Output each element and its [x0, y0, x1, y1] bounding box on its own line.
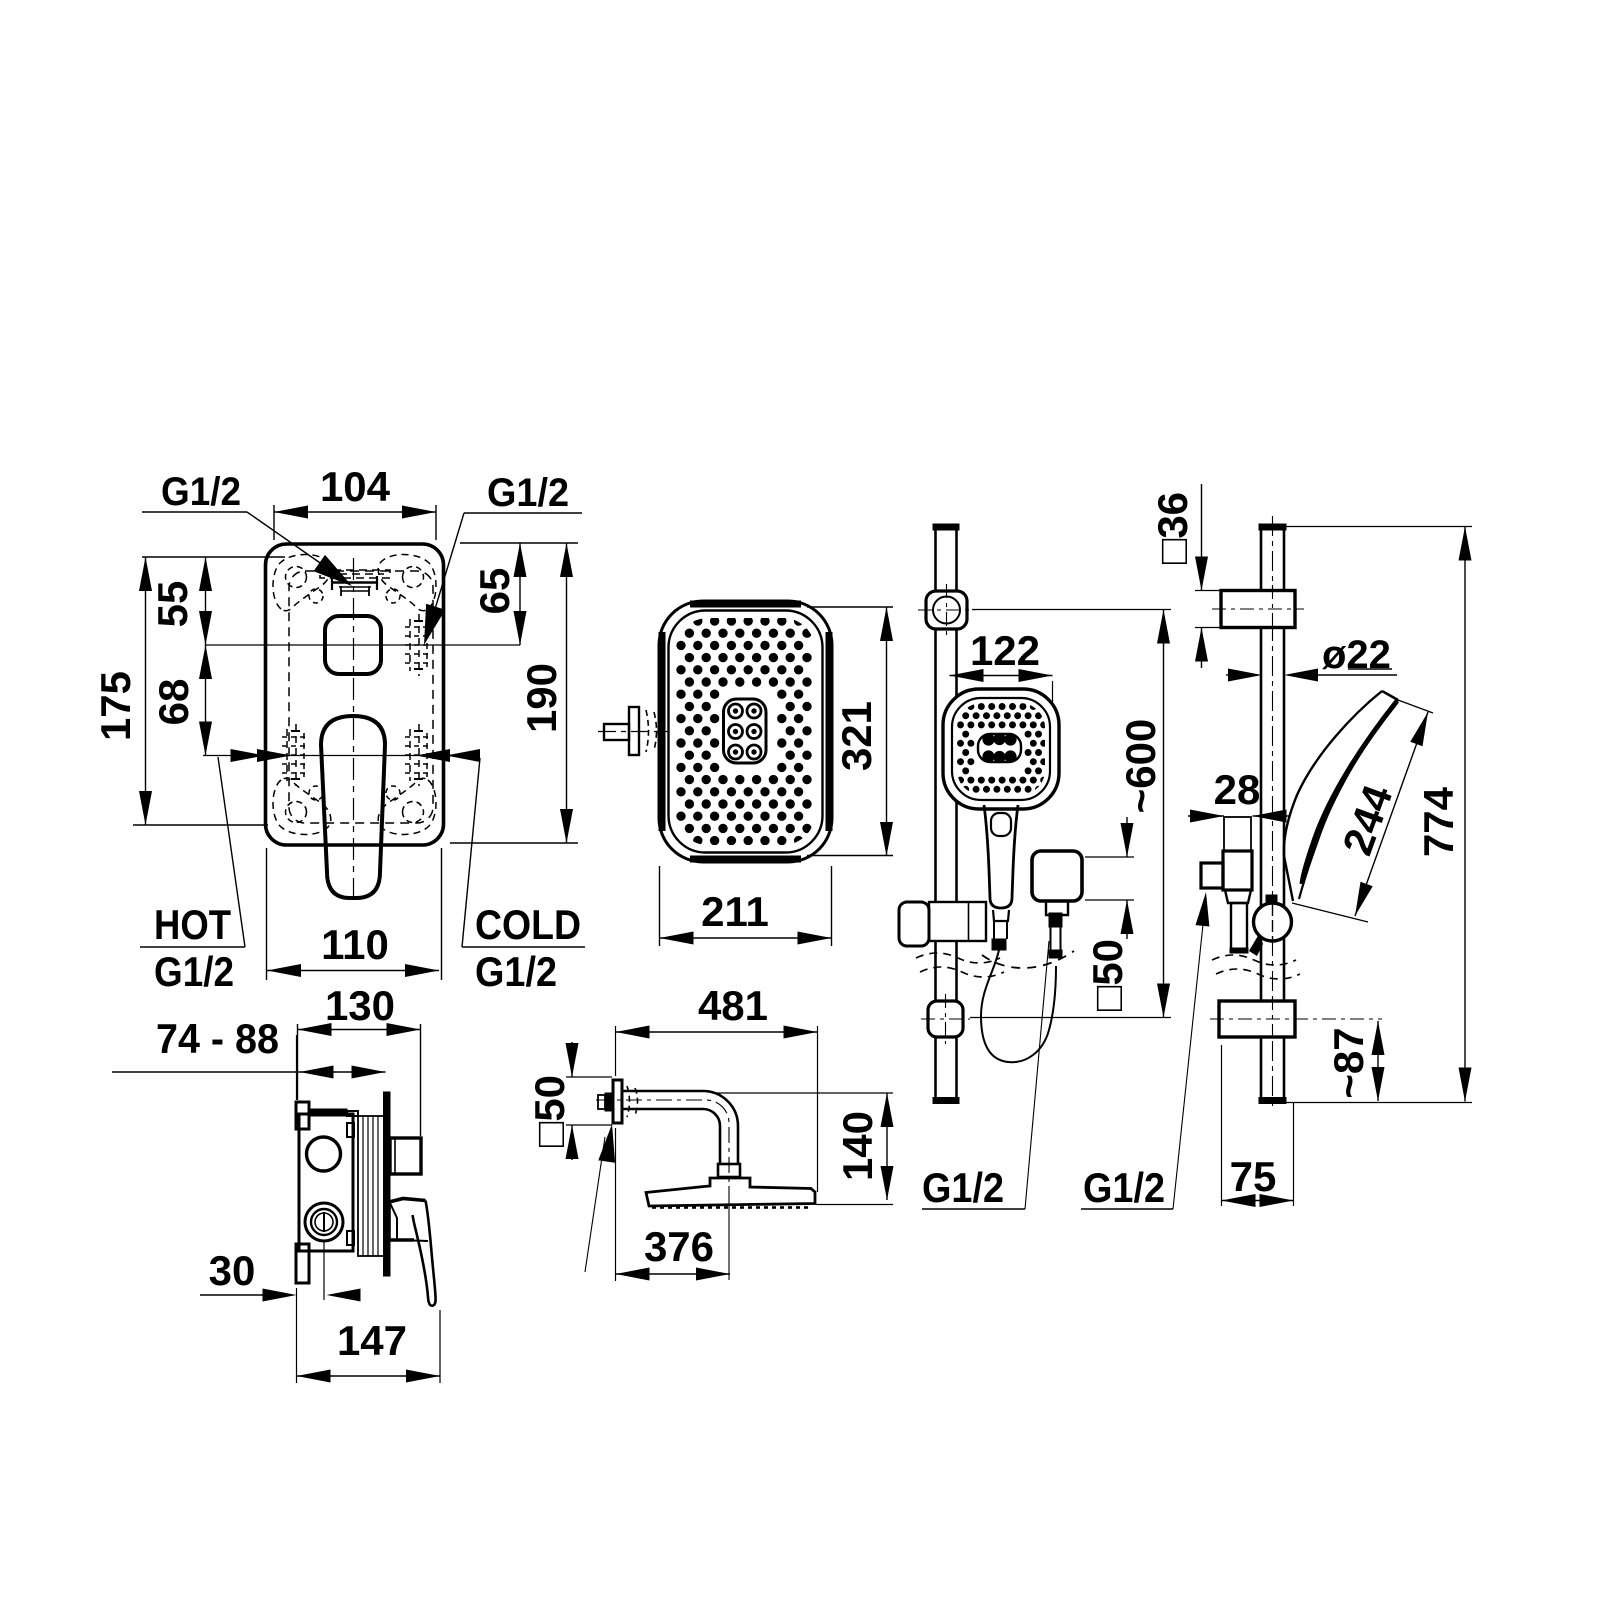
- hand shower front: handle: [984, 805, 1018, 908]
- mixer side view: diverter knob: [390, 1138, 421, 1174]
- overhead shower front: center jet plate: [724, 699, 767, 763]
- rail break marks: [916, 953, 1000, 963]
- cold inlet valve symbol (upper right): [405, 614, 432, 676]
- svg-text:G1/2: G1/2: [1083, 1164, 1165, 1211]
- mixer side view: lower port circles: [305, 1203, 343, 1241]
- svg-text:G1/2: G1/2: [475, 948, 557, 995]
- shower hose: [981, 950, 1056, 1062]
- svg-text:~87: ~87: [1325, 1027, 1372, 1098]
- svg-text:110: 110: [321, 921, 389, 968]
- hand shower front: center plate: [978, 734, 1021, 762]
- mixer side view: wall flange bottom: [296, 1244, 309, 1283]
- svg-text:104: 104: [320, 463, 391, 510]
- rail side: pivot ball: [1266, 895, 1277, 904]
- plate corner escutcheon mark bottom-right: [378, 778, 436, 834]
- rain head side profile: [646, 1178, 815, 1206]
- svg-text:30: 30: [209, 1247, 256, 1294]
- svg-text:175: 175: [92, 671, 139, 741]
- hot valve symbol (lower left): [282, 724, 309, 786]
- plate vertical centerline: [353, 558, 355, 905]
- mixer front view: inner dashed contour: [289, 571, 433, 823]
- plate corner escutcheon mark top-left: [273, 554, 331, 610]
- arm wall stub: [598, 1095, 605, 1109]
- svg-text:74 - 88: 74 - 88: [156, 1015, 279, 1062]
- svg-text:774: 774: [1415, 786, 1462, 857]
- svg-text:140: 140: [834, 1111, 881, 1181]
- plate corner escutcheon mark bottom-left: [273, 778, 331, 834]
- upper valve axis centerline: [206, 644, 520, 646]
- rail side: break marks: [1212, 955, 1296, 965]
- plate width arrows at valve axis: [231, 749, 265, 762]
- svg-text:G1/2: G1/2: [922, 1164, 1004, 1211]
- shower arm pipe: [622, 1091, 738, 1164]
- svg-text:321: 321: [833, 701, 880, 771]
- lower valve axis centerline: [203, 755, 478, 757]
- mixer lever handle (front): [321, 716, 385, 898]
- hose wedge at ball: [1249, 934, 1263, 956]
- svg-text:G1/2: G1/2: [487, 471, 569, 515]
- svg-text:COLD: COLD: [475, 901, 581, 948]
- svg-text:G1/2: G1/2: [161, 470, 241, 514]
- outlet nut: [1046, 901, 1068, 915]
- svg-text:ø22: ø22: [1322, 633, 1391, 677]
- svg-text:65: 65: [471, 568, 518, 615]
- svg-text:G1/2: G1/2: [154, 948, 234, 995]
- hand shower wand (side): [1284, 691, 1382, 901]
- rail top slider bracket: [926, 591, 967, 629]
- svg-text:28: 28: [1214, 766, 1261, 813]
- mixer side view: wall flange top: [296, 1102, 309, 1129]
- mixer side view: body box: [299, 1114, 353, 1251]
- overhead shower front: outer shell: [659, 601, 832, 862]
- rail bar (side view): [1260, 527, 1263, 1100]
- overhead shower front: face ring: [669, 611, 823, 853]
- overhead shower front: wall connector: [604, 724, 629, 740]
- svg-text:HOT: HOT: [154, 901, 231, 948]
- mixer side view: cartridge hatch: [358, 1116, 384, 1256]
- svg-text:147: 147: [337, 1317, 407, 1364]
- svg-text:□50: □50: [1084, 939, 1131, 1011]
- mixer side view: lever handle: [389, 1199, 426, 1241]
- svg-text:376: 376: [644, 1223, 714, 1270]
- plate corner escutcheon mark top-right: [378, 554, 436, 610]
- svg-text:□36: □36: [1149, 492, 1196, 564]
- rail bottom slider bracket: [928, 1001, 963, 1037]
- arm flange leader arrow: [585, 1137, 605, 1272]
- svg-text:122: 122: [970, 627, 1040, 674]
- upper valve opening (rounded square): [325, 616, 381, 674]
- mixer side view: top bar: [309, 1109, 347, 1116]
- diverter knob top-center: [320, 570, 390, 596]
- svg-text:190: 190: [518, 663, 565, 733]
- svg-text:68: 68: [150, 679, 197, 726]
- rail side: holder assembly: [1224, 817, 1251, 851]
- hand shower hose fitting: [993, 910, 1009, 921]
- rail side: bottom bracket: [1219, 1001, 1295, 1037]
- svg-text:130: 130: [325, 982, 395, 1029]
- svg-text:~600: ~600: [1117, 719, 1164, 814]
- arm nut: [718, 1164, 740, 1177]
- mixer side view: upper port circle: [307, 1137, 341, 1171]
- rail side: top bracket: [1221, 591, 1295, 628]
- cold valve symbol (lower right): [405, 724, 432, 786]
- svg-text:□50: □50: [526, 1075, 573, 1147]
- mixer front view: plate outline: [266, 544, 444, 845]
- rail bar (front view): [934, 527, 937, 1100]
- rain head nozzles: [652, 1206, 808, 1209]
- mixer side view: escutcheon plate bar: [384, 1092, 391, 1276]
- svg-text:55: 55: [149, 581, 196, 628]
- svg-text:481: 481: [698, 982, 768, 1029]
- arm flange plate: [613, 1080, 622, 1123]
- hidden hose dashed arc: [982, 951, 1074, 968]
- hand shower front: head: [943, 689, 1059, 809]
- svg-text:75: 75: [1230, 1153, 1277, 1200]
- svg-text:211: 211: [701, 888, 769, 935]
- rail front: hand shower holder: [929, 902, 986, 941]
- wall outlet elbow square: [1032, 851, 1082, 901]
